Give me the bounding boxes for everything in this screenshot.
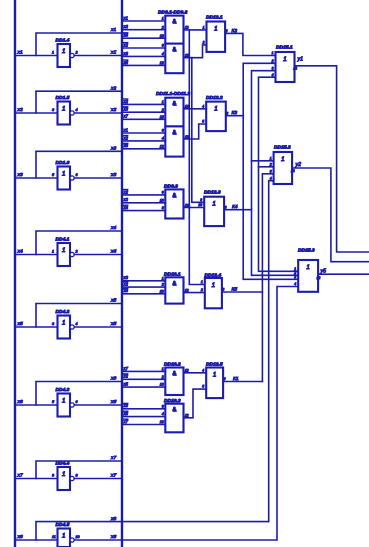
svg-text:5: 5 [202,385,204,389]
wire tap x1 to DD11.2 [122,132,165,134]
wire tap x2-inv to DD10.2 [122,378,165,380]
wire x4 bypass [36,231,122,255]
pin 5 DD12.2 [202,120,204,124]
node x4 tap label [123,205,129,210]
node x4 input label [17,248,23,254]
svg-text:1: 1 [62,48,65,55]
pin 10 DD4.5 [76,535,81,539]
label DD10.2 [164,362,181,368]
node x4 bypass label [110,225,116,231]
pin 3 DD12.1 [226,29,228,33]
node x1 tap label [123,127,128,132]
wire net K4 branch to DD15.2 in1 [252,160,274,162]
svg-text:x1: x1 [110,50,116,56]
svg-text:12: 12 [185,135,189,139]
svg-text:у1: у1 [297,57,304,63]
inverter DD1.5 [58,102,75,125]
wire tap x4-inv to DD9.3 [122,210,165,212]
svg-text:&: & [172,408,176,414]
node x6 input label [17,399,23,405]
wire tap x3 to DD9.2 [122,55,165,57]
pin 4 DD1.5 [76,108,78,112]
wire DD9.1 out to DD12.1 in1 [184,29,207,31]
svg-text:2: 2 [161,375,164,379]
svg-text:8: 8 [225,205,227,209]
svg-text:x2: x2 [123,282,129,287]
svg-text:DD15.3: DD15.3 [298,248,315,254]
svg-text:6: 6 [226,111,228,115]
wire shared term M1a vertical (DD9.1 out to DD12.4 in1) [189,30,205,285]
svg-text:2: 2 [202,41,205,45]
svg-text:x8: x8 [110,534,116,540]
svg-text:1: 1 [62,106,65,113]
label DD15.3 [298,248,315,254]
svg-text:1: 1 [306,264,309,271]
node x6 bypass label [110,376,116,382]
node x1 input label [17,49,23,55]
pin 5 DD12.5 [202,385,204,389]
label DD1.6 [56,160,70,166]
inverter DD4.3 [58,394,75,417]
node x5 tap label [123,382,129,387]
wire tap x2-inv to DD9.3 [122,194,165,196]
svg-text:К2: К2 [232,28,238,34]
pin 12 DD9.2 [160,61,164,65]
node K4 label [232,204,238,210]
svg-text:DD12.2: DD12.2 [206,95,223,101]
pin 13 DD10.2 [160,383,164,387]
wire x5 bypass [36,304,122,328]
svg-text:11: 11 [52,535,56,539]
svg-text:x3: x3 [17,172,23,178]
svg-text:13: 13 [160,34,164,38]
wire tap x5 to DD10.2 [122,386,165,388]
pin 3 DD15.2 [270,169,272,173]
pin 11 DD11.2 [185,135,189,139]
svg-text:3: 3 [52,322,55,326]
label DD15.2 [274,145,291,151]
label DD10.3 [164,398,181,404]
svg-text:9: 9 [200,198,202,202]
pin 12 DD11.1 [185,105,189,109]
svg-text:DD15.1: DD15.1 [276,45,293,51]
node /x7 label [110,473,116,479]
wire DD15.2 in2 branch [259,166,274,168]
label DD12.5 [206,361,223,367]
node y5 label [320,269,327,275]
svg-text:x2: x2 [123,99,129,104]
svg-text:1: 1 [52,249,54,253]
pin 13 DD11.1 [160,115,164,119]
label DD10.1 [164,271,181,277]
pin 8 DD9.3 [162,206,164,210]
node x3 tap label [123,51,129,56]
svg-text:1: 1 [162,100,164,104]
svg-text:x7: x7 [110,455,116,461]
pin 2 DD15.3 [293,271,296,275]
wire DD4.5 output /x8 [74,539,276,541]
OR gate DD15.2 [274,152,293,184]
node x4 tap label [123,33,129,38]
svg-text:x1: x1 [123,15,128,20]
svg-text:2: 2 [161,25,164,29]
node x5 bypass label [110,298,116,304]
pin 3 DD9.2 [162,44,164,48]
svg-text:DD15.2: DD15.2 [274,145,291,151]
svg-text:1: 1 [214,26,217,33]
svg-text:5: 5 [202,120,204,124]
wire DD12.3 output K4 [224,209,251,211]
node x2 tap label [123,99,129,104]
AND gate DD11.2 [165,126,183,156]
pin 1 DD1.4 [52,50,54,54]
inverter DD1.4 [58,44,75,67]
pin 1 DD11.1 [162,100,164,104]
svg-text:4: 4 [202,104,204,108]
pin 4 DD4.2 [76,322,78,326]
svg-text:&: & [172,20,176,26]
AND gate DD10.1 [165,277,183,303]
svg-text:3: 3 [162,44,164,48]
svg-text:1: 1 [212,201,215,208]
pin 13 DD9.1 [160,34,164,38]
wire tap x2-inv to DD9.2 [122,47,165,49]
wire DD12.2 output K3 [226,115,244,117]
svg-text:x5: x5 [110,298,116,304]
svg-text:1: 1 [213,372,216,379]
label DD15.1 [276,45,293,51]
wire tap x7 to DD10.2 [122,370,165,372]
svg-text:x6: x6 [17,399,23,405]
svg-text:DD4.5: DD4.5 [56,522,70,528]
svg-text:5: 5 [52,173,55,177]
svg-text:x2: x2 [123,24,129,29]
svg-text:4: 4 [162,137,164,141]
svg-text:12: 12 [185,414,189,418]
svg-text:x5: x5 [110,321,116,327]
pin 1 DD10.1 [162,276,164,280]
svg-text:12: 12 [317,276,321,280]
node K2 label [232,28,238,34]
pin 6 DD12.2 [226,111,228,115]
label DD4.2 [56,309,70,315]
pin 2 DD15.2 [269,162,272,166]
node x2 input label [17,107,23,113]
wire DD15.3 output y5 [318,273,369,275]
wire net K3 vertical to DD15.1 and DD15.3 [243,63,298,279]
svg-text:1: 1 [203,26,205,30]
svg-text:&: & [172,281,176,287]
node /x1 label [110,50,116,56]
wire DD4.4 output /x7 [74,478,122,480]
svg-text:2: 2 [269,162,272,166]
wire signal collector bus (main vertical) [121,0,123,547]
wire x2 bypass [36,91,122,113]
pin 4 DD12.5 [202,368,204,372]
svg-text:4: 4 [76,322,78,326]
svg-text:x4: x4 [123,205,129,210]
svg-text:x1: x1 [110,27,116,33]
OR gate DD12.3 [204,197,224,226]
pin 9 DD9.3 [162,191,164,195]
svg-text:у2: у2 [295,162,302,168]
svg-text:DD1.6: DD1.6 [56,160,70,166]
svg-text:13: 13 [160,383,164,387]
inverter DD4.5 [58,529,75,547]
label DD1.4 [56,38,70,44]
node x5 input label [17,321,23,327]
svg-text:12: 12 [185,26,189,30]
svg-text:DD4.2: DD4.2 [56,309,70,315]
OR gate DD12.2 [206,102,226,132]
pin 3 DD1.5 [52,108,55,112]
node x2 tap label [123,135,129,140]
pin 3 DD15.3 [294,275,296,279]
pin 11 DD4.5 [52,535,56,539]
svg-text:&: & [172,130,176,136]
svg-text:12: 12 [291,169,295,173]
pin 3 DD4.2 [52,322,55,326]
node x2 bypass label [110,85,116,91]
wire tap x2 to DD9.3 [122,202,165,204]
wire x8 bypass [36,522,269,540]
OR gate DD12.5 [206,368,223,399]
label DD4.1 [56,237,70,243]
node x1 bypass label [110,27,116,33]
pin 2 DD4.1 [75,249,78,253]
wire input bus (left vertical) [14,0,16,547]
svg-text:1: 1 [162,367,164,371]
node junction M1/DD9.3 output [188,206,191,209]
wire DD11.1 out to DD12.2 in1 [184,108,207,110]
svg-text:12: 12 [185,105,189,109]
svg-text:12: 12 [160,61,164,65]
node y1 label [297,57,304,63]
pin 6 DD4.3 [76,400,79,404]
wire DD9.2 out to DD12.1 in2 [184,45,207,58]
AND gate DD10.2 [165,368,183,396]
svg-text:1: 1 [283,56,286,63]
svg-text:&: & [172,193,176,199]
svg-text:4: 4 [294,282,296,286]
svg-text:x7: x7 [110,473,116,479]
wire tap x3-inv to DD10.3 [122,408,165,410]
node x7 tap label [123,114,129,119]
AND gate DD9.3 [165,189,183,218]
pin 8 DD4.4 [76,473,79,477]
svg-text:x2: x2 [123,197,129,202]
pin 1 DD15.2 [270,156,272,160]
wire DD4.1 output /x4 [74,254,122,256]
svg-text:DD11.1-DD11.2: DD11.1-DD11.2 [156,91,190,97]
svg-text:1: 1 [214,106,217,113]
svg-text:x7: x7 [123,114,129,119]
svg-text:x5: x5 [123,143,129,148]
svg-text:3: 3 [272,66,274,70]
pin 12 DD15.2 [291,169,295,173]
node x7 tap label [123,366,129,371]
pin 4 DD12.2 [202,104,204,108]
svg-text:3: 3 [162,129,164,133]
wire DD9.3 out to DD12.3 in2 [184,207,205,209]
pin 2 DD10.1 [161,283,164,287]
label DD4.4 [56,461,70,467]
svg-text:12: 12 [293,67,297,71]
label DD9.1-DD9.2 [158,10,188,16]
svg-text:&: & [172,48,176,54]
label DD11.1-DD11.2 [156,91,190,97]
pin 5 DD1.6 [52,173,55,177]
svg-text:К3: К3 [232,110,238,116]
pin 3 DD10.3 [162,404,164,408]
node x5 tap label [123,411,129,416]
label DD9.3 [164,183,178,189]
OR gate DD15.1 [276,52,295,82]
wire DD1.4 output /x1 [74,55,122,57]
wire tap x5-inv to DD9.2 [122,64,165,66]
pin 12 DD9.1 [185,26,189,30]
wire input x6 [15,404,58,406]
svg-text:1: 1 [62,320,65,327]
svg-text:К5: К5 [232,287,238,293]
pin 2 DD1.4 [75,50,78,54]
wire tap x5-inv to DD11.2 [122,148,165,150]
node x5 tap label [123,60,129,65]
svg-text:DD1.4: DD1.4 [56,38,70,44]
svg-text:1: 1 [62,471,65,478]
wire tap x3-inv to DD11.1 [122,111,165,113]
svg-text:DD1.5: DD1.5 [56,95,70,101]
inverter DD4.1 [58,243,75,266]
svg-text:К1: К1 [233,376,239,382]
wire tap x2-inv to DD11.1 [122,103,165,105]
wire tap x2-inv to DD11.2 [122,140,165,142]
wire input x7 [15,478,58,480]
node x2 tap label [123,197,129,202]
pin 13 DD10.1 [160,289,164,293]
svg-text:1: 1 [162,276,164,280]
svg-text:4: 4 [202,368,204,372]
pin 10 DD9.3 [160,198,164,202]
inverter DD4.2 [58,316,75,339]
svg-text:12: 12 [185,288,189,292]
pin 2 DD11.1 [161,108,164,112]
svg-text:x6: x6 [110,399,116,405]
svg-text:1: 1 [201,280,203,284]
wire tap x7 to DD11.1 [122,118,165,120]
wire tap x7-inv to DD10.3 [122,424,165,426]
svg-text:DD12.3: DD12.3 [204,190,221,196]
svg-text:1: 1 [272,51,274,55]
node x7 input label [17,472,23,478]
pin 1 DD15.3 [294,267,296,271]
svg-text:12: 12 [185,54,189,58]
svg-text:12: 12 [160,420,164,424]
label DD12.1 [206,15,223,21]
wire x7 bypass [36,461,122,479]
svg-text:у5: у5 [320,269,327,275]
svg-text:10: 10 [198,203,202,207]
wire DD12.5 output K1 [223,381,262,383]
svg-text:2: 2 [200,288,203,292]
pin 5 DD4.3 [52,400,55,404]
wire net K5-K1 vertical / DD15.2 in3 [262,174,273,382]
svg-text:8: 8 [76,473,79,477]
svg-text:&: & [172,102,176,108]
node /x5 label [110,321,116,327]
pin 1 DD9.1 [162,17,164,21]
svg-text:3: 3 [270,169,272,173]
pin 1 DD12.4 [201,280,203,284]
pin 2 DD12.4 [200,288,203,292]
svg-text:1: 1 [62,533,65,540]
svg-text:1: 1 [52,50,54,54]
svg-text:1: 1 [62,398,65,405]
pin 12 DD15.1 [293,67,297,71]
svg-text:x3: x3 [110,146,116,152]
svg-text:1: 1 [62,247,65,254]
svg-text:4: 4 [162,412,164,416]
svg-text:13: 13 [160,289,164,293]
svg-text:2: 2 [161,283,164,287]
node x5 tap label [123,143,129,148]
pin 4 DD15.3 [294,282,296,286]
pin 4 DD15.1 [272,73,274,77]
svg-text:x7: x7 [123,366,129,371]
node K5 label [232,287,238,293]
node /x6 label [110,399,116,405]
wire x3 bypass [36,151,122,178]
wire DD4.2 output /x5 [74,326,122,328]
wire shared term M1b vertical (DD9.2 out to DD12.3 in1) [192,58,204,203]
svg-text:5: 5 [52,400,55,404]
svg-text:3: 3 [222,288,224,292]
node K3 label [232,110,238,116]
wire x6 bypass [36,382,122,406]
node x8 input label [17,534,23,540]
svg-text:x2: x2 [17,107,23,113]
svg-text:x4: x4 [17,248,23,254]
svg-text:2: 2 [75,249,78,253]
pin 12 DD10.3 [160,420,164,424]
wire input x2 [15,112,58,114]
AND gate DD10.3 [165,404,183,433]
pin 12 DD11.2 [160,144,164,148]
svg-text:x6: x6 [110,376,116,382]
label DD12.2 [206,95,223,101]
svg-text:x3: x3 [110,172,116,178]
node x3 tap label [123,403,129,408]
svg-text:DD12.1: DD12.1 [206,15,223,21]
wire input x1 [15,55,58,57]
node /x2 label [110,107,116,113]
pin 12 DD15.3 [317,276,321,280]
svg-text:x4: x4 [110,225,116,231]
svg-text:x4: x4 [123,288,129,293]
inverter DD1.6 [58,167,75,190]
label DD4.5 [56,522,70,528]
svg-text:1: 1 [212,282,215,289]
svg-text:x2: x2 [110,85,116,91]
wire DD1.5 output /x2 [74,112,122,114]
svg-text:1: 1 [270,156,272,160]
svg-text:x8: x8 [17,534,23,540]
node /x3 label [110,172,116,178]
svg-text:x4: x4 [110,249,116,255]
wire input x4 [15,254,58,256]
svg-text:4: 4 [272,73,274,77]
svg-text:x2: x2 [123,189,129,194]
